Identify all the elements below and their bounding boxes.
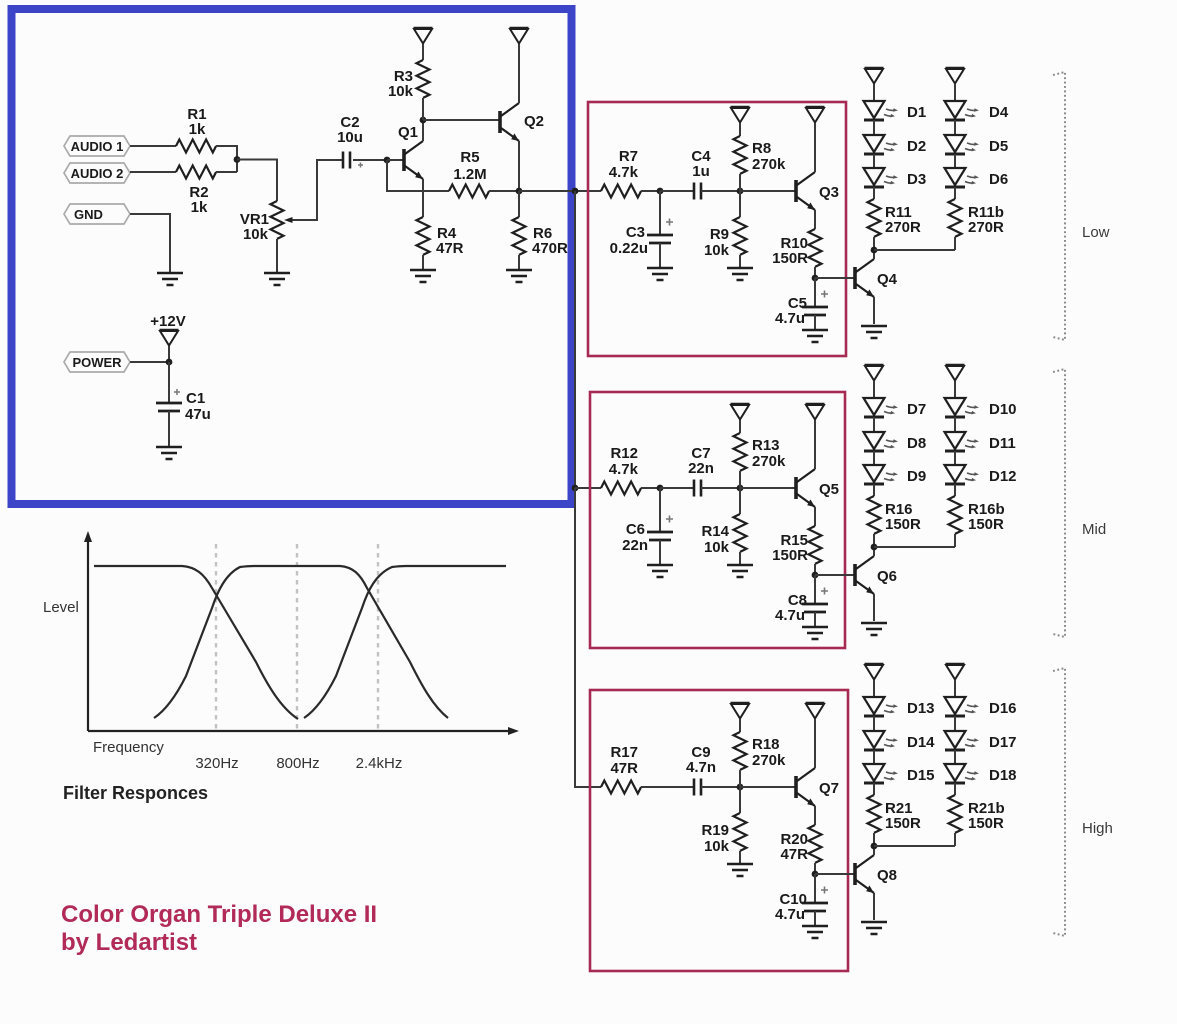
svg-text:150R: 150R [968,516,1004,533]
svg-text:800Hz: 800Hz [276,755,319,772]
wire supply to D13 [873,680,875,697]
junction trunk node low [572,188,579,195]
wire supply to node D [168,346,170,362]
LED D14 [864,731,899,750]
wire LED node to second column [874,845,955,847]
wire Q6 collector up [873,547,875,556]
capacitor C1 label [186,390,205,407]
wire D9 to R16 [873,484,875,496]
LED D18 [945,764,980,783]
ground under C3 [647,268,673,280]
svg-text:D9: D9 [907,468,926,485]
junction trunk node mid [572,485,579,492]
capacitor C5 [802,291,828,316]
wire LED node to second column [874,249,955,251]
LED D18 label [989,767,1017,784]
wire R16 down [873,534,875,547]
wire R3 to collector node [422,98,424,120]
capacitor C3 value [610,240,648,257]
resistor R13 value [752,453,786,470]
capacitor C10 value [775,906,805,923]
input port POWER [64,352,130,372]
wire D17 to D18 [954,750,956,764]
junction node E High [737,784,744,791]
transistor Q5 [796,469,815,507]
wire C3 to ground [659,243,661,268]
svg-text:by Ledartist: by Ledartist [61,929,197,956]
svg-text:270R: 270R [968,219,1004,236]
resistor R21 [868,795,881,833]
Low group label [1082,224,1110,241]
svg-text:22n: 22n [622,537,648,554]
svg-text:R9: R9 [710,226,729,243]
transistor Q1 [404,141,423,179]
+12V supply above D1 [865,68,884,84]
svg-text:150R: 150R [772,547,808,564]
capacitor C6 value [622,537,648,554]
junction node A [234,156,241,163]
wire node to C4 [660,190,694,192]
capacitor C3 [647,219,673,244]
svg-text:D16: D16 [989,700,1017,717]
junction Q1 collector node [420,117,427,124]
capacitor C3 label [626,224,645,241]
svg-text:C1: C1 [186,390,205,407]
wire R21b down [954,833,956,846]
LED D10 [945,398,980,417]
capacitor C6 [647,516,673,541]
LED D9 [864,465,899,484]
wire R5 to node C [489,190,519,192]
LED D1 label [907,104,926,121]
wire D7 to D8 [873,417,875,432]
wire node F to Q4 base [815,277,854,279]
resistor R16b label [968,501,1005,518]
wire R14 to ground [739,552,741,565]
wire C10 to ground [814,911,816,926]
input port AUDIO 1 [64,136,130,156]
potentiometer VR1 wiper arrow [284,217,298,223]
LED D3 label [907,171,926,188]
wire R11 down [873,237,875,250]
wire node F to Q8 base [815,873,854,875]
junction node E Mid [737,485,744,492]
wire POWER tag to node D [130,361,169,363]
resistor R18 label [752,736,780,753]
resistor R20 label [780,831,808,848]
wire node F to Q6 base [815,574,854,576]
svg-text:R17: R17 [610,744,638,761]
svg-text:R19: R19 [701,822,729,839]
wire supply to Q3 collector [814,123,816,172]
LED D6 label [989,171,1008,188]
svg-text:Q6: Q6 [877,568,897,585]
resistor R12 value [609,461,639,478]
resistor R4 value [436,240,464,257]
wire D4 to D5 [954,120,956,135]
trunk wire mid to high [575,488,601,787]
wire node C to low filter [519,190,601,192]
resistor R20 [809,825,822,863]
resistor R4 label [437,225,457,242]
svg-text:C3: C3 [626,224,645,241]
ground under Q6 [861,623,887,635]
svg-text:Q2: Q2 [524,113,544,130]
resistor R13 [734,433,747,471]
resistor R16 label [885,501,913,518]
svg-text:10u: 10u [337,129,363,146]
svg-text:R14: R14 [701,523,729,540]
wire R19 to ground [739,851,741,864]
svg-text:C6: C6 [626,521,645,538]
potentiometer VR1 value [243,226,269,243]
svg-text:Q4: Q4 [877,271,898,288]
svg-text:POWER: POWER [72,355,122,370]
transistor Q4 label [877,271,898,288]
schematic title line 1 [61,901,377,928]
svg-text:Q8: Q8 [877,867,897,884]
resistor R4 [417,217,430,255]
wire node E to Q5 base [740,487,795,489]
wire node E to Q7 base [740,786,795,788]
svg-text:10k: 10k [388,83,414,100]
resistor R1 [176,140,216,153]
junction LED cathode node High [871,843,878,850]
svg-text:D3: D3 [907,171,926,188]
svg-text:Q7: Q7 [819,780,839,797]
capacitor C8 value [775,607,805,624]
blue preamp section frame [12,9,572,504]
capacitor C8 [802,588,828,613]
svg-text:GND: GND [74,207,103,222]
svg-text:Q5: Q5 [819,481,839,498]
svg-text:4.7n: 4.7n [686,759,716,776]
svg-text:D15: D15 [907,767,935,784]
resistor R15 value [772,547,808,564]
+12V supply above D7 [865,365,884,381]
wire node F to C10 [814,874,816,903]
wire Q8 collector up [873,846,875,855]
junction node C [516,188,523,195]
wire D3 to R11 [873,187,875,199]
ground under Q4 [861,326,887,338]
svg-text:R8: R8 [752,140,771,157]
wire Q6 emitter to ground [873,594,875,621]
wire node E to R14 [739,488,741,514]
wire D12 to R16b [954,484,956,496]
svg-text:R5: R5 [460,149,479,166]
LED D15 [864,764,899,783]
resistor R17 [601,781,641,794]
svg-text:150R: 150R [885,516,921,533]
wire D2 to D3 [873,154,875,168]
svg-text:4.7u: 4.7u [775,607,805,624]
wire C1 to ground [168,411,170,447]
resistor R9 label [710,226,729,243]
svg-text:47u: 47u [185,406,211,423]
svg-text:D8: D8 [907,435,926,452]
resistor R19 [734,813,747,851]
graph dashed line 2.4kHz [377,544,379,729]
+12V supply above D13 [865,664,884,680]
resistor R7 [601,185,641,198]
Low group bracket [1053,72,1065,340]
+12V supply above R3 [414,28,433,44]
High group bracket [1053,668,1065,936]
resistor R16b value [968,516,1004,533]
capacitor C1 polarity mark [174,389,180,395]
ground under Q8 [861,922,887,934]
ground under C8 [802,627,828,639]
svg-text:AUDIO 1: AUDIO 1 [71,139,124,154]
svg-text:D12: D12 [989,468,1017,485]
svg-text:Low: Low [1082,224,1110,241]
resistor R11b value [968,219,1004,236]
svg-text:150R: 150R [968,815,1004,832]
LED D4 label [989,104,1009,121]
resistor R1 value [189,121,206,138]
capacitor C8 label [788,592,807,609]
svg-text:D5: D5 [989,138,1008,155]
resistor R10 value [772,250,808,267]
resistor R2 value [191,199,208,216]
wire R9 to ground [739,255,741,268]
+12V supply above D10 [946,365,965,381]
LED D16 label [989,700,1017,717]
capacitor C2 polarity mark [358,163,363,168]
wire D1 to D2 [873,120,875,135]
resistor R5 value [453,166,486,183]
graph high-pass curve [304,566,506,718]
svg-text:D2: D2 [907,138,926,155]
svg-text:D13: D13 [907,700,935,717]
+12V supply above R18 [731,703,750,719]
wire D14 to D15 [873,750,875,764]
svg-text:47R: 47R [436,240,464,257]
+12V supply above Q7 [806,703,825,719]
wire VR1 wiper to C2 [298,160,343,220]
resistor R9 value [704,242,730,259]
svg-text:R7: R7 [619,148,638,165]
transistor Q6 label [877,568,897,585]
wire node to C7 [660,487,694,489]
resistor R13 label [752,437,780,454]
wire C7 to node E [701,487,740,489]
wire node E to R9 [739,191,741,217]
wire LED node to second column [874,546,955,548]
capacitor C6 label [626,521,645,538]
resistor R12 label [610,445,638,462]
resistor R17 label [610,744,638,761]
capacitor C2 value [337,129,363,146]
wire D5 to D6 [954,154,956,168]
+12V supply above R8 [731,107,750,123]
LED D2 label [907,138,926,155]
input port AUDIO 2 [64,163,130,183]
wire trunk to mid filter [575,487,601,489]
svg-text:1k: 1k [189,121,206,138]
svg-text:High: High [1082,820,1113,837]
capacitor C10 [802,887,828,912]
svg-text:D6: D6 [989,171,1008,188]
wire D8 to D9 [873,451,875,465]
wire node B to Q1 base [387,159,403,161]
svg-text:Q3: Q3 [819,184,839,201]
graph Y axis [84,531,92,731]
transistor Q7 [796,768,815,806]
wire D18 to R21b [954,783,956,795]
ground under C6 [647,565,673,577]
resistor R11 value [885,219,921,236]
resistor R14 value [704,539,730,556]
wire C9 to node E [701,786,740,788]
capacitor C4 [694,183,701,200]
ground under C1 [156,447,182,459]
transistor Q2 [500,103,519,141]
wire Q4 collector up [873,250,875,259]
svg-text:47R: 47R [780,846,808,863]
transistor Q3 label [819,184,839,201]
transistor Q8 label [877,867,897,884]
graph low-pass curve [94,566,298,719]
svg-text:150R: 150R [772,250,808,267]
resistor R3 label [394,68,413,85]
resistor R18 [734,732,747,770]
wire Q2 emitter down [518,141,520,191]
Mid group bracket [1053,369,1065,637]
resistor R10 [809,229,822,267]
LED D7 [864,398,899,417]
resistor R2 [176,166,216,179]
wire C6 to ground [659,540,661,565]
capacitor C2 label [340,114,359,131]
svg-text:4.7u: 4.7u [775,310,805,327]
resistor R10 label [780,235,808,252]
junction after R7 [657,188,664,195]
svg-text:D14: D14 [907,734,935,751]
capacitor C7 value [688,460,714,477]
resistor R9 [734,217,747,255]
resistor R16 [868,496,881,534]
svg-text:1u: 1u [692,163,710,180]
wire node A to VR1 [237,160,277,202]
svg-text:270k: 270k [752,752,786,769]
LED D7 label [907,401,926,418]
svg-text:D17: D17 [989,734,1017,751]
+12V supply above D16 [946,664,965,680]
wire D15 to R21 [873,783,875,795]
LED D11 label [989,435,1016,452]
junction node D [166,359,173,366]
wire C2 right to node B [353,159,387,161]
capacitor C5 value [775,310,805,327]
resistor R21 label [885,800,913,817]
resistor R17 value [610,760,638,777]
trunk wire low to mid [574,191,576,488]
LED D9 label [907,468,926,485]
wire R11b down [954,237,956,250]
LED D5 label [989,138,1008,155]
svg-text:R13: R13 [752,437,780,454]
resistor R11b label [968,204,1004,221]
junction node E Low [737,188,744,195]
wire R15 to node F [814,564,816,575]
wire R18 to node E [739,770,741,787]
resistor R14 [734,514,747,552]
ground under R6 [506,270,532,282]
resistor R3 [417,60,430,98]
capacitor C1 value [185,406,211,423]
wire C8 to ground [814,612,816,627]
wire node down to C3 [659,191,661,235]
LED D8 label [907,435,926,452]
svg-text:D18: D18 [989,767,1017,784]
resistor R1 label [187,106,206,123]
capacitor C9 value [686,759,716,776]
+12V supply above D4 [946,68,965,84]
resistor R11 label [885,204,912,221]
svg-text:D7: D7 [907,401,926,418]
svg-text:D11: D11 [989,435,1016,452]
wire R21 down [873,833,875,846]
svg-text:10k: 10k [704,838,730,855]
junction node F Mid [812,572,819,579]
+12V label [150,313,185,330]
resistor R7 label [619,148,638,165]
transistor Q5 label [819,481,839,498]
graph label Level [43,599,79,616]
Mid filter section frame [590,392,845,648]
resistor R18 value [752,752,786,769]
capacitor C10 label [779,891,807,908]
LED D2 [864,135,899,154]
svg-text:Filter Responces: Filter Responces [63,783,208,803]
LED D8 [864,432,899,451]
graph label Frequency [93,739,164,756]
svg-text:2.4kHz: 2.4kHz [356,755,403,772]
wire R13 to node E [739,471,741,488]
wire C5 to ground [814,315,816,330]
capacitor C9 [694,779,701,796]
svg-text:270k: 270k [752,156,786,173]
wire Q1 collector up [422,121,424,141]
resistor R21b value [968,815,1004,832]
transistor Q1 label [398,124,418,141]
wire D11 to D12 [954,451,956,465]
LED D1 [864,101,899,120]
LED D16 [945,697,980,716]
potentiometer VR1 [271,201,284,239]
ground under C10 [802,926,828,938]
wire R20 to node F [814,863,816,874]
resistor R8 [734,136,747,174]
wire Q4 emitter to ground [873,297,875,324]
+12V supply above Q5 [806,404,825,420]
svg-text:270k: 270k [752,453,786,470]
wire Q1 emitter to R4 [422,179,424,217]
wire supply to R8 [739,123,741,136]
svg-text:1.2M: 1.2M [453,166,486,183]
svg-text:10k: 10k [704,242,730,259]
potentiometer VR1 label [240,211,269,228]
Mid group label [1082,521,1106,538]
resistor R5 label [460,149,479,166]
graph band-pass curve [154,566,448,718]
graph label 2.4kHz [356,755,403,772]
wire supply to Q5 collector [814,420,816,469]
graph dashed line 800Hz [296,544,298,729]
wire R17 to C9 [641,786,694,788]
